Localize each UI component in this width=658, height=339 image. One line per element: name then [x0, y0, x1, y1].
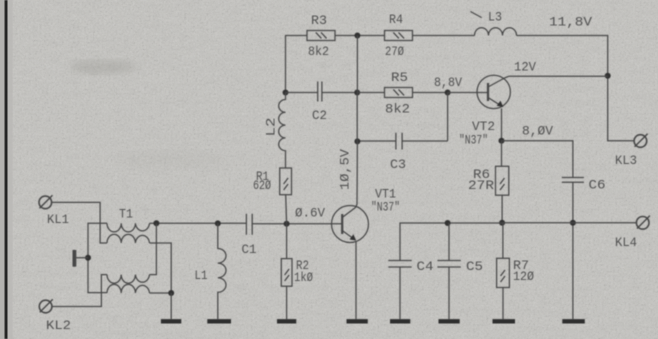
svg-text:27Ø: 27Ø [385, 45, 404, 59]
node R3/R4 junction [354, 33, 360, 39]
wire R3 right to R4 left [335, 35, 385, 37]
svg-text:R3: R3 [311, 14, 327, 28]
transistor VT1 [332, 206, 369, 243]
wire C3 right lead [402, 140, 447, 142]
ground chassis at T1 [74, 250, 88, 267]
resistor R5 [385, 88, 413, 98]
wire R2 bottom to ground [286, 286, 288, 319]
svg-text:27R: 27R [468, 179, 495, 193]
wire base node down to C3 [447, 93, 449, 142]
svg-text:R5: R5 [391, 71, 408, 85]
capacitor C4 [388, 261, 411, 268]
node L2/C2 junction [283, 90, 289, 96]
svg-text:11,8V: 11,8V [549, 16, 593, 30]
svg-text:C4: C4 [417, 260, 434, 274]
svg-text:KL3: KL3 [615, 154, 637, 168]
svg-text:1Ø,5V: 1Ø,5V [339, 148, 353, 190]
svg-text:R4: R4 [389, 13, 403, 27]
terminal KL1 [39, 195, 53, 209]
node VT2 emitter junction [499, 138, 505, 144]
wire C5 bottom to ground [448, 267, 450, 319]
node C5 top junction [445, 220, 451, 226]
wire main base rail (T1 to C1) [156, 222, 246, 224]
node T1 bottom right junction [168, 290, 174, 296]
wire R1 bottom to base rail [285, 195, 288, 224]
wire node to R2 [286, 224, 288, 259]
svg-text:8,ØV: 8,ØV [522, 125, 554, 139]
svg-text:C5: C5 [466, 260, 483, 274]
svg-text:VT1: VT1 [375, 188, 396, 202]
node C2/R5/collector junction [354, 90, 360, 96]
ground under L1 [207, 319, 231, 323]
wire C6 bottom through KL4 line to ground [572, 183, 574, 320]
wire node to R7 [502, 223, 504, 258]
transformer T1 windings [107, 223, 150, 293]
svg-text:VT2: VT2 [472, 120, 495, 134]
capacitor C1 [246, 214, 252, 235]
node R1/R2/base junction [284, 221, 290, 227]
wire VT2 collector to KL3 line [505, 76, 608, 78]
svg-text:L1: L1 [195, 269, 208, 283]
node R6/R7 junction [499, 220, 505, 226]
wire C4/C5 top rail [400, 223, 502, 260]
wire T1 right vertical A-C [150, 223, 157, 274]
wire KL2 to T1 row C [52, 275, 107, 307]
svg-text:8k2: 8k2 [385, 103, 410, 117]
svg-text:8k2: 8k2 [308, 45, 329, 59]
inductor L1 [218, 223, 226, 319]
wire C2 left lead [286, 92, 318, 94]
capacitor C2 [318, 82, 322, 102]
terminal KL3 [634, 134, 647, 148]
wire emitter node to R6 [501, 141, 503, 167]
capacitor C5 [437, 261, 460, 268]
terminal KL2 [39, 299, 53, 313]
node collector/KL3 line junction [605, 73, 611, 79]
resistor R1 [280, 168, 292, 195]
ground under C4 [390, 319, 410, 323]
wire T1 row D right [150, 292, 172, 294]
wire T1 row A right to circuit [150, 222, 157, 224]
node L1 top junction [215, 220, 221, 226]
wire C4 bottom to ground [399, 267, 401, 319]
wire C5 top lead [448, 223, 450, 260]
node C6/KL4 wire junction [570, 220, 576, 226]
svg-text:L2: L2 [265, 118, 279, 137]
wire C1 right to VT1 base [252, 223, 342, 225]
wire collector node to R5 [357, 92, 384, 94]
node T1 center tap [85, 255, 91, 261]
svg-text:C3: C3 [390, 158, 406, 172]
wire R6R7 node to KL4 [502, 222, 636, 224]
wire C3 left lead [357, 140, 395, 142]
resistor R6 [496, 166, 509, 195]
wire T1 row B right down [150, 243, 172, 293]
svg-text:C1: C1 [242, 243, 257, 257]
wire VT1 emitter to ground [355, 242, 357, 319]
svg-text:KL2: KL2 [46, 319, 71, 333]
ground under T1 [161, 319, 181, 323]
node C3/collector junction [354, 138, 360, 144]
wire L3 right to KL3 [517, 36, 635, 141]
wire R7 bottom to ground [502, 288, 504, 320]
resistor R3 [307, 31, 335, 41]
wire base node to VT2 base [448, 92, 488, 94]
svg-text:8,8V: 8,8V [434, 76, 462, 90]
svg-text:C6: C6 [589, 179, 606, 193]
node T1 secondary output [153, 220, 159, 226]
wire T1 row A left to center tap vertical [88, 223, 107, 292]
svg-text:C2: C2 [312, 109, 327, 123]
terminal KL4 [636, 216, 650, 230]
resistor R4 [385, 31, 413, 41]
svg-text:1kØ: 1kØ [294, 271, 313, 285]
svg-text:12Ø: 12Ø [513, 270, 534, 284]
wire emitter node to C6 [502, 141, 573, 178]
wire R4 right to L3 [413, 35, 475, 37]
svg-text:KL1: KL1 [47, 213, 69, 227]
inductor L3 [475, 28, 517, 36]
svg-text:62Ø: 62Ø [253, 179, 271, 193]
resistor R7 [497, 258, 510, 287]
wire collector vertical (R3R4 node to VT1) [356, 36, 358, 208]
wire KL1 to T1 row B [52, 202, 107, 243]
svg-text:"N37": "N37" [371, 201, 400, 215]
capacitor C6 [562, 178, 584, 183]
svg-text:"N37": "N37" [459, 134, 488, 148]
wire R5 right to base node [413, 92, 448, 94]
svg-text:T1: T1 [119, 208, 133, 222]
inductor L2 [279, 93, 286, 169]
node VT2 base junction [445, 90, 451, 96]
ground under C5 [439, 319, 460, 323]
svg-text:Ø.6V: Ø.6V [295, 207, 325, 221]
ground under R7 [493, 319, 516, 323]
wire T1 junction to ground [170, 293, 172, 319]
L3 adjustment slash [470, 12, 481, 18]
wire R6 bottom to node [501, 195, 503, 223]
wire R3 left to vertical feed [286, 36, 308, 93]
resistor R2 [281, 259, 292, 287]
capacitor C3 [396, 133, 402, 150]
transistor VT2 [477, 75, 510, 108]
svg-text:12V: 12V [514, 61, 536, 75]
wire C2 right to collector line [322, 92, 357, 94]
wire VT2 emitter down [501, 108, 503, 140]
svg-text:KL4: KL4 [615, 236, 637, 250]
ground under VT1 [347, 319, 368, 323]
svg-text:L3: L3 [488, 11, 502, 25]
ground under C6 [562, 319, 585, 323]
ground under R2 [277, 319, 296, 323]
